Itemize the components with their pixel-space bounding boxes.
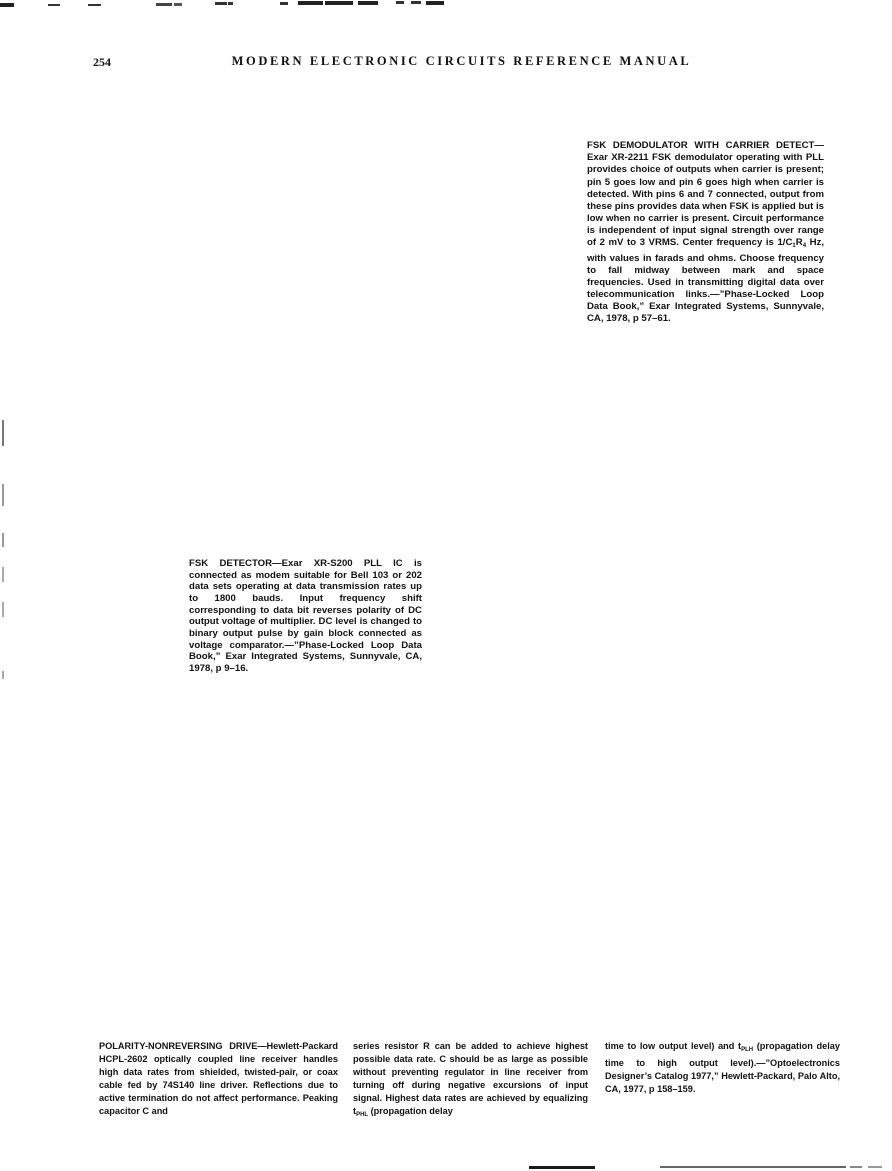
text block: FSK demodulator (top right) [587, 140, 824, 326]
text block: polarity-nonreversing drive col 1 [99, 1040, 338, 1117]
page header [93, 55, 111, 70]
scan artifact dashes top edge [0, 3, 14, 7]
text block: FSK detector (middle left) [189, 558, 422, 675]
scan artifact lines bottom edge [529, 1166, 595, 1169]
scan artifact marks left edge [2, 420, 4, 446]
text block: polarity-nonreversing drive col 2 [353, 1040, 588, 1121]
text block: polarity-nonreversing drive col 3 [605, 1040, 840, 1096]
